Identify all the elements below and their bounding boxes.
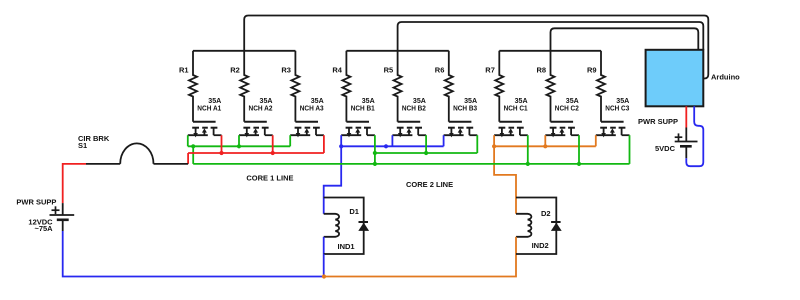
node: A1 drain junction (red) (219, 151, 223, 155)
node: B2 drain junction (green) (424, 151, 428, 155)
label Arduino (711, 72, 740, 81)
label PWR SUPP (12V) (16, 197, 56, 206)
node: A2 drain junction (red) (271, 151, 275, 155)
label IND1 (338, 242, 355, 251)
diode D2 (flyback) (551, 222, 562, 231)
label R7 (485, 66, 495, 75)
transistor NCH A2 (35A N-channel MOSFET) (239, 122, 273, 138)
wire: NCH C3 drain drop (green) (629, 135, 631, 164)
wire: IND2 loop top/right/bottom (black) (516, 198, 556, 255)
svg-text:R5: R5 (384, 66, 394, 75)
resistor R2 (240, 51, 248, 122)
wire: NCH C1 source drop (orange) (493, 135, 495, 146)
wire: +12V red bus (188, 152, 324, 154)
transistor NCH A1 (35A N-channel MOSFET) (188, 122, 222, 138)
label R1 (179, 66, 189, 75)
svg-text:D1: D1 (349, 207, 359, 216)
label R2 (230, 66, 240, 75)
node: A-bus to CORE1 junction (green) (191, 144, 195, 148)
transistor NCH A3 (35A N-channel MOSFET) (290, 122, 324, 138)
node: B2 source junction (blue) (384, 144, 388, 148)
svg-text:NCH B1: NCH B1 (351, 104, 375, 113)
node: bottom bus junction (orange) (322, 274, 326, 278)
wire: group C source bus (orange) (494, 145, 596, 147)
svg-text:IND1: IND1 (338, 242, 355, 251)
label CORE 2 LINE (406, 180, 453, 189)
resistor R8 (547, 51, 555, 122)
battery 12VDC ~75A power supply (50, 203, 75, 231)
wire: gate control line group C (riser from C rail to Arduino, innermost) (551, 28, 699, 51)
wire: red bus riser to breaker wire (187, 153, 189, 164)
resistor R9 (597, 51, 605, 122)
wire: group B source bus (blue) (341, 145, 443, 147)
label 35A / NCH A1 (197, 96, 222, 112)
svg-text:NCH A3: NCH A3 (300, 104, 324, 113)
wire: NCH A2 drain drop (red) (272, 135, 274, 153)
wire: NCH B1 drain drop (green) (374, 135, 376, 153)
svg-text:IND2: IND2 (532, 241, 549, 250)
svg-text:R8: R8 (537, 66, 547, 75)
wire: NCH C2 drain drop (green) (578, 135, 580, 164)
wire: gate rail group A (193, 50, 295, 52)
node: B1 drain junction (green) (373, 151, 377, 155)
label 35A / NCH C3 (605, 96, 630, 112)
wire: B drain bus down to CORE 1 line (green) (374, 153, 376, 164)
wire: blue feed to IND1 (324, 146, 342, 197)
svg-text:R4: R4 (332, 66, 342, 75)
svg-text:D2: D2 (541, 209, 551, 218)
inductor IND1 (324, 214, 339, 237)
label 12VDC ~75A (28, 218, 53, 233)
wire: NCH B3 source drop (blue) (443, 135, 445, 146)
svg-text:NCH C3: NCH C3 (605, 104, 629, 113)
resistor R6 (445, 51, 453, 122)
label CORE 1 LINE (246, 174, 293, 183)
wire: NCH C2 source drop (orange) (544, 135, 546, 146)
svg-text:5VDC: 5VDC (655, 144, 676, 153)
transistor NCH B1 (35A N-channel MOSFET) (341, 122, 375, 138)
svg-text:~75A: ~75A (34, 224, 53, 233)
wire: IND1 loop top/right/bottom (black) (324, 198, 364, 255)
wire: battery+ to breaker (red) (63, 164, 86, 203)
label R3 (281, 66, 291, 75)
svg-text:CORE 1 LINE: CORE 1 LINE (246, 174, 293, 183)
wire: NCH A1 source drop (green) (187, 135, 189, 146)
label D1 (349, 207, 359, 216)
svg-text:NCH B3: NCH B3 (453, 104, 477, 113)
svg-text:NCH C1: NCH C1 (504, 104, 528, 113)
Arduino U1 (controller board) (646, 50, 704, 107)
node: C1 drain junction (green) (526, 162, 530, 166)
wire: gate rail group C (499, 50, 601, 52)
wire: NCH B2 drain drop (green) (425, 135, 427, 153)
wire: gate control line group A (riser from A rail to Arduino, outermost) (244, 16, 708, 79)
wire: breaker wire left (black) (86, 163, 120, 165)
resistor R4 (342, 51, 350, 122)
wire: gate control line group B (riser from B rail to Arduino, middle) (398, 22, 704, 51)
svg-text:Arduino: Arduino (711, 72, 740, 81)
node: B1 source junction (blue) (339, 144, 343, 148)
wire: orange feed to IND2 (494, 146, 516, 197)
transistor NCH B3 (35A N-channel MOSFET) (444, 122, 478, 138)
wire: NCH B2 source drop (blue) (391, 135, 393, 146)
wire: NCH A1 drain drop (red) (221, 135, 223, 153)
resistor R5 (394, 51, 402, 122)
wire: 5V return to Arduino (blue) (686, 106, 703, 166)
label R8 (537, 66, 547, 75)
svg-text:PWR SUPP: PWR SUPP (16, 197, 56, 206)
wire: CORE 1 line (green) (193, 163, 629, 165)
label R4 (332, 66, 342, 75)
wire: IND1 bottom-left lead (blue) (323, 237, 325, 254)
label PWR SUPP (5V) (638, 117, 678, 126)
circuit breaker S1 (120, 143, 153, 164)
node: C2 drain junction (green) (577, 162, 581, 166)
svg-text:R9: R9 (587, 66, 597, 75)
wire: NCH A3 source drop (green) (289, 135, 291, 146)
node: B bus to CORE1 junction (green) (373, 162, 377, 166)
wire: Arduino 5V+ (red) (685, 106, 687, 127)
wire: NCH A2 source drop (green) (238, 135, 240, 146)
svg-text:NCH A1: NCH A1 (197, 104, 221, 113)
wire: A bus down to CORE 1 line (green) (192, 146, 194, 164)
resistor R1 (189, 51, 197, 122)
svg-text:S1: S1 (78, 141, 87, 150)
label 35A / NCH C2 (555, 96, 580, 112)
battery 5VDC power supply (675, 128, 698, 159)
wire: NCH C1 drain drop (green) (527, 135, 529, 164)
wire: IND1 top-left lead (blue) (323, 198, 325, 214)
wire: group B drain bus (green) (375, 152, 477, 154)
label 35A / NCH B2 (402, 96, 427, 112)
resistor R7 (495, 51, 503, 122)
wire: IND1 to bottom bus (blue) (323, 254, 325, 277)
transistor NCH B2 (35A N-channel MOSFET) (392, 122, 426, 138)
wire: gate rail group B (346, 50, 448, 52)
node: C2 source junction (orange) (543, 144, 547, 148)
transistor NCH C1 (35A N-channel MOSFET) (494, 122, 528, 138)
label 35A / NCH B1 (351, 96, 376, 112)
svg-text:NCH C2: NCH C2 (555, 104, 579, 113)
svg-text:CORE 2 LINE: CORE 2 LINE (406, 180, 453, 189)
label 35A / NCH A2 (249, 96, 274, 112)
label 35A / NCH A3 (300, 96, 325, 112)
label 35A / NCH C1 (504, 96, 529, 112)
transistor NCH C3 (35A N-channel MOSFET) (596, 122, 630, 138)
svg-text:R1: R1 (179, 66, 189, 75)
svg-text:NCH B2: NCH B2 (402, 104, 426, 113)
label D2 (541, 209, 551, 218)
diode D1 (flyback) (358, 222, 369, 231)
svg-text:R6: R6 (435, 66, 445, 75)
wire: NCH A3 drain drop (red) (323, 135, 325, 153)
svg-text:R2: R2 (230, 66, 240, 75)
wire: IND2 bottom-left lead (orange) (515, 237, 517, 254)
inductor IND2 (516, 214, 531, 237)
label R5 (384, 66, 394, 75)
label IND2 (532, 241, 549, 250)
node: C1 source junction (orange) (492, 144, 496, 148)
svg-text:NCH A2: NCH A2 (249, 104, 273, 113)
wire: CORE 2 bottom run (orange) (324, 254, 516, 277)
wire: NCH B3 drain drop (green) (476, 135, 478, 153)
svg-text:R7: R7 (485, 66, 495, 75)
label CIR BRK S1 (78, 134, 110, 150)
label R9 (587, 66, 597, 75)
wire: 12V negative bottom run (blue) (63, 231, 324, 277)
wire: NCH B1 source drop (blue) (340, 135, 342, 146)
wire: breaker wire right (black) (154, 163, 189, 165)
wire: NCH C3 source drop (orange) (595, 135, 597, 146)
node: A2 source junction (green) (237, 144, 241, 148)
resistor R3 (291, 51, 299, 122)
transistor NCH C2 (35A N-channel MOSFET) (545, 122, 579, 138)
svg-text:PWR SUPP: PWR SUPP (638, 117, 678, 126)
wire: IND2 top-left lead (orange) (515, 198, 517, 214)
wire: group A source bus (green) (188, 145, 290, 147)
svg-text:R3: R3 (281, 66, 291, 75)
label 35A / NCH B3 (453, 96, 478, 112)
label 5VDC (655, 144, 676, 153)
label R6 (435, 66, 445, 75)
